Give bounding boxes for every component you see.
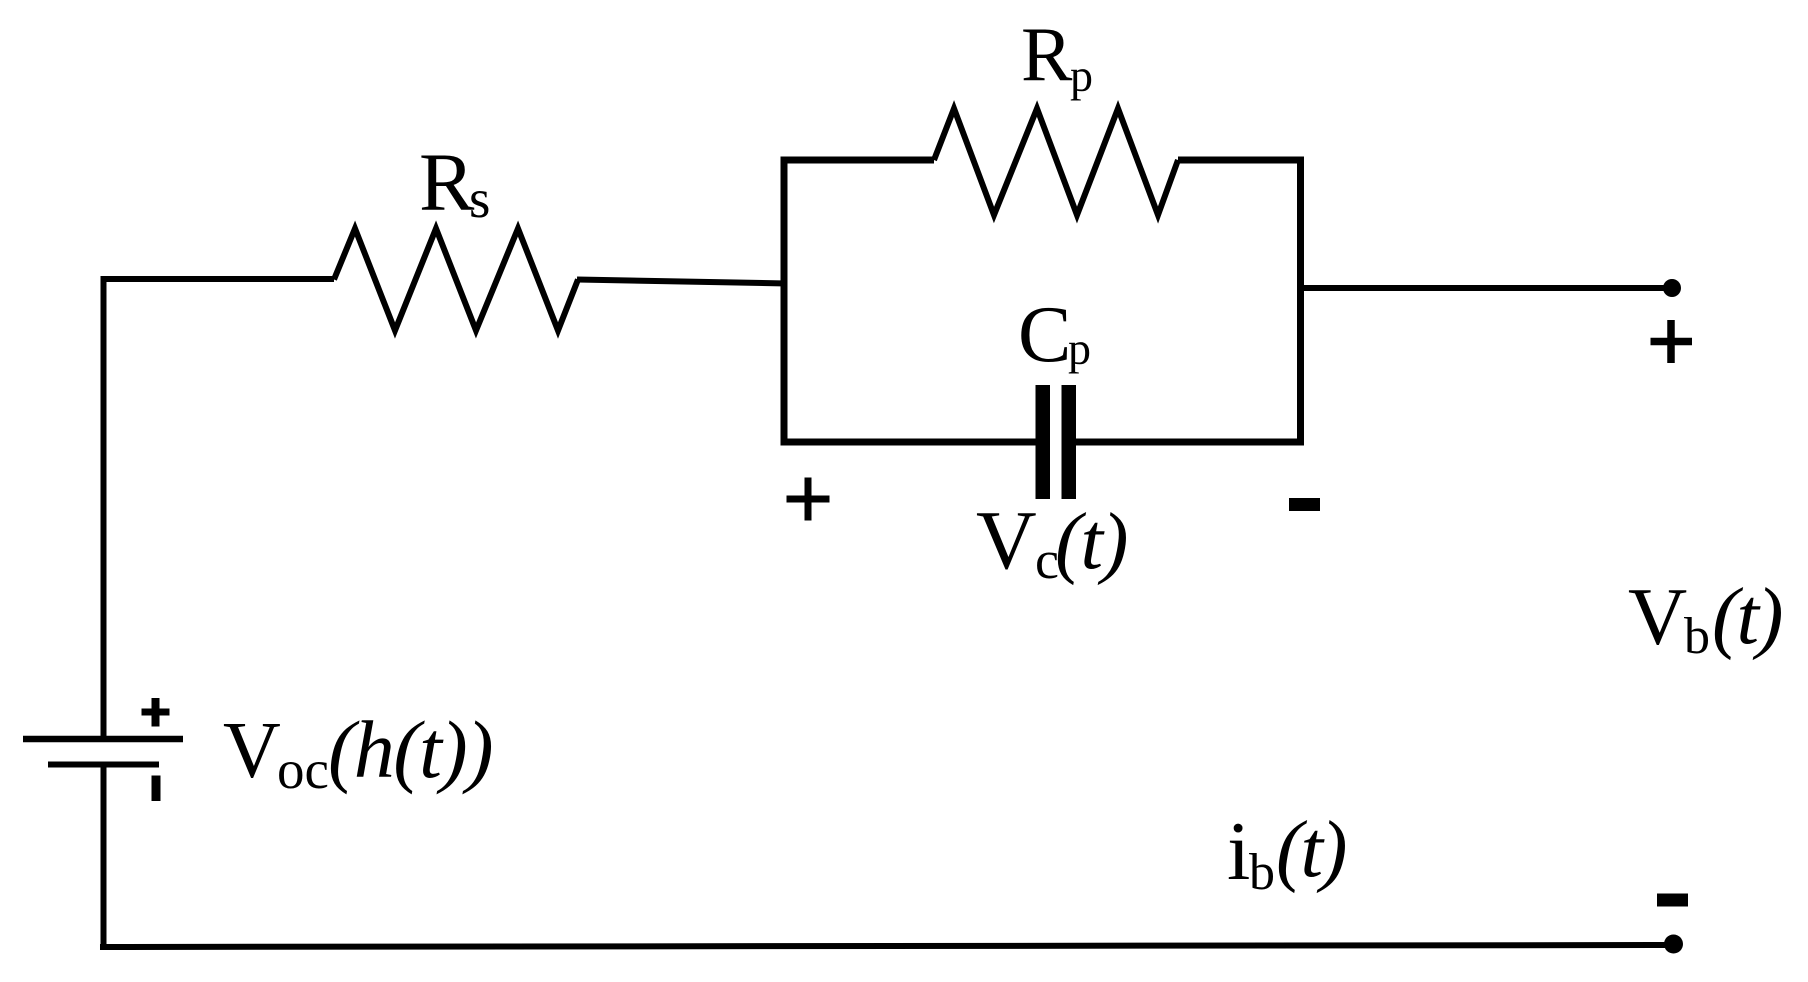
parallel block bottom wire left segment xyxy=(781,439,1037,446)
wire left vertical upper xyxy=(101,276,107,740)
parallel block top wire right segment xyxy=(1178,157,1304,164)
svg-text:C: C xyxy=(1018,291,1071,379)
node terminal top xyxy=(1663,279,1681,297)
svg-text:p: p xyxy=(1070,50,1093,101)
plus sign capacitor left xyxy=(787,478,830,521)
svg-text:(t): (t) xyxy=(1712,571,1781,661)
svg-text:R: R xyxy=(419,136,475,228)
node terminal bottom xyxy=(1664,935,1683,954)
wire top-left horizontal xyxy=(101,276,335,282)
svg-text:V: V xyxy=(1628,571,1687,662)
wire output top xyxy=(1298,285,1666,291)
svg-text:(t): (t) xyxy=(1055,496,1127,586)
svg-text:p: p xyxy=(1068,323,1091,374)
svg-text:b: b xyxy=(1249,844,1275,901)
svg-text:V: V xyxy=(223,707,281,795)
svg-text:i: i xyxy=(1227,805,1250,898)
resistor R_s xyxy=(334,229,578,331)
plus sign output xyxy=(1651,320,1693,363)
svg-text:R: R xyxy=(1021,11,1073,97)
parallel block left side xyxy=(781,157,788,446)
battery minus tick xyxy=(152,776,161,802)
battery plus sign xyxy=(142,698,170,727)
battery V_oc top plate xyxy=(23,736,183,743)
svg-text:(h(t)): (h(t)) xyxy=(328,704,492,795)
wire Rs to parallel block xyxy=(577,280,787,284)
wire bottom horizontal xyxy=(100,945,1673,947)
wire left vertical lower xyxy=(101,764,107,950)
svg-text:V: V xyxy=(976,494,1037,587)
svg-text:s: s xyxy=(469,168,490,229)
parallel block bottom wire right segment xyxy=(1075,439,1304,446)
parallel block right side xyxy=(1297,157,1304,446)
svg-text:b: b xyxy=(1684,608,1710,665)
minus sign capacitor right xyxy=(1289,498,1320,511)
minus sign output xyxy=(1657,894,1688,907)
capacitor C_p plate right xyxy=(1062,385,1077,499)
svg-text:oc: oc xyxy=(277,739,329,800)
capacitor C_p plate left xyxy=(1036,385,1051,499)
parallel block top wire left segment xyxy=(781,157,935,164)
battery V_oc bottom plate xyxy=(48,762,159,768)
resistor R_p xyxy=(934,109,1178,216)
svg-text:(t): (t) xyxy=(1276,804,1345,894)
